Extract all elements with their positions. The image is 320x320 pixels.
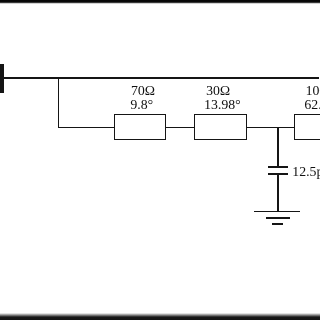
wire: row segment TL2 to TL3 with junction to C1 xyxy=(246,127,295,129)
label: TL2 electrical length 13.98° xyxy=(204,98,241,112)
wire: vertical stub from feed line down to component row xyxy=(58,77,60,129)
port P1 terminal bar xyxy=(0,64,4,93)
decorative top crop bar xyxy=(0,0,320,4)
transmission line TL1 (70Ω 9.8°) box xyxy=(114,114,167,140)
wire: capacitor upper lead xyxy=(277,128,279,167)
label: TL3 electrical length 62.° (clipped) xyxy=(304,98,320,112)
capacitor C1 bottom plate xyxy=(268,173,288,175)
wire: row segment TL1 to TL2 xyxy=(166,127,196,129)
label: C1 value 12.5pF (clipped) xyxy=(292,165,320,179)
label: TL1 value 70Ω xyxy=(131,84,155,98)
decorative bottom crop bar xyxy=(0,313,320,320)
transmission line TL2 (30Ω 13.98°) box xyxy=(194,114,247,140)
wire: capacitor lower lead to ground xyxy=(277,175,279,212)
capacitor C1 top plate xyxy=(268,166,288,168)
ground symbol: bottom bar xyxy=(272,223,283,225)
ground symbol: top bar xyxy=(254,211,301,213)
transmission line TL3 (100Ω 62.°) box, cut off at right edge xyxy=(294,114,320,140)
label: TL2 value 30Ω xyxy=(206,84,230,98)
wire: row segment to TL1 xyxy=(58,127,115,129)
ground symbol: middle bar xyxy=(266,217,291,219)
label: TL3 value 100Ω (clipped) xyxy=(306,84,320,98)
wire: top feed line xyxy=(0,77,319,79)
label: TL1 electrical length 9.8° xyxy=(130,98,153,112)
